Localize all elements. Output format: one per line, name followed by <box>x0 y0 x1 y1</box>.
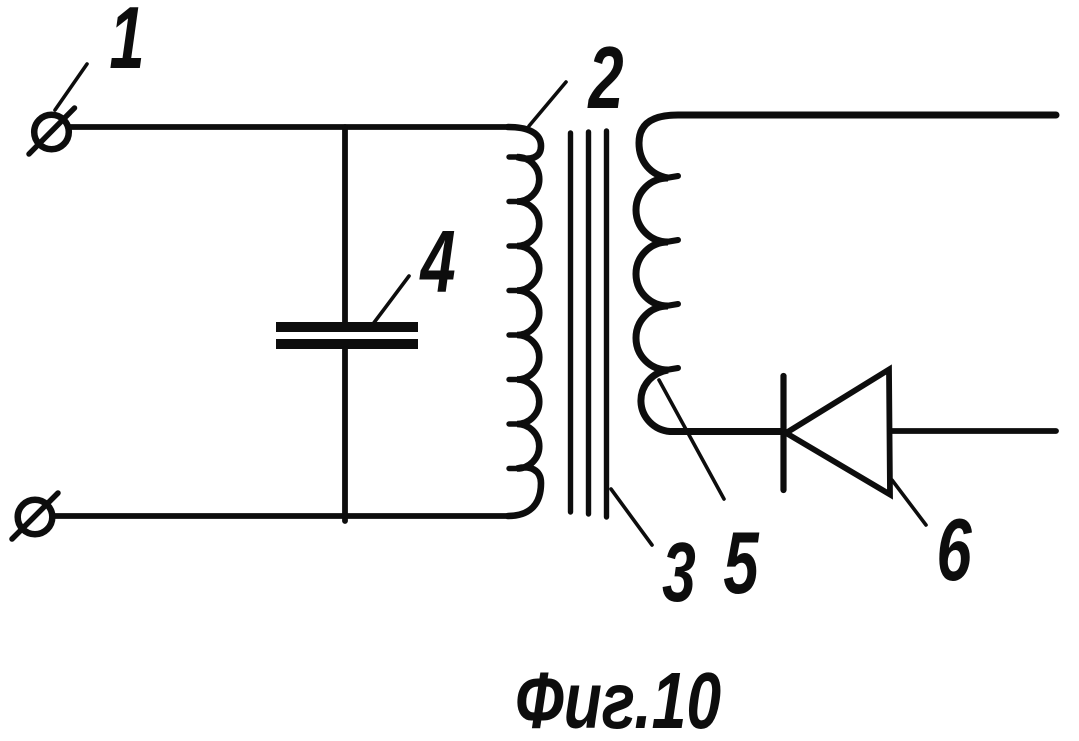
svg-text:4: 4 <box>419 214 456 312</box>
leader line for label 3 <box>611 489 652 545</box>
secondary winding cusp nubs <box>666 176 678 370</box>
transformer secondary winding 5 and top output wire <box>636 115 1056 432</box>
svg-text:1: 1 <box>109 0 144 88</box>
transformer core lamination line (left) <box>568 133 573 512</box>
leader line for label 6 <box>892 480 926 525</box>
terminal 1 (top-left input terminal circle) <box>34 115 69 150</box>
transformer primary winding 2 <box>508 127 541 516</box>
wire: capacitor branch lower vertical <box>342 349 348 521</box>
svg-text:3: 3 <box>662 525 696 619</box>
svg-text:5: 5 <box>723 515 759 613</box>
wire: top-left horizontal from terminal 1 to primary winding <box>68 124 508 130</box>
svg-text:6: 6 <box>936 502 972 600</box>
svg-text:2: 2 <box>587 30 624 128</box>
wire: bottom horizontal from terminal to primary winding <box>52 513 508 519</box>
leader line for label 4 <box>370 276 409 328</box>
terminal (bottom-left input terminal circle) <box>18 500 53 535</box>
primary winding cusp nubs <box>509 157 519 469</box>
capacitor C4 bottom plate <box>276 339 418 349</box>
terminal 1 slash <box>29 108 75 154</box>
svg-text:Фиг.10: Фиг.10 <box>515 657 721 741</box>
diode 6 triangle <box>786 370 890 495</box>
transformer core lamination line (right) <box>604 131 609 517</box>
leader line for label 2 <box>529 82 566 126</box>
diode 6 cathode bar <box>780 376 786 490</box>
wire: capacitor branch upper vertical <box>342 127 348 323</box>
transformer core lamination line (middle) <box>586 132 591 514</box>
wire: diode output to right edge <box>890 428 1056 434</box>
leader line for label 1 <box>55 64 87 110</box>
capacitor C4 top plate <box>276 322 418 332</box>
terminal slash (bottom) <box>12 493 58 539</box>
leader line for label 5 <box>659 380 724 499</box>
